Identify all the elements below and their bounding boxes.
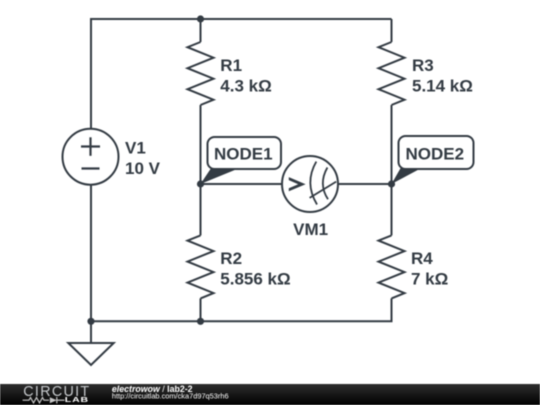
- wire top right branch: [391, 19, 393, 42]
- node junction dot ground: [87, 318, 94, 325]
- wire R3 bottom to NODE2: [391, 105, 393, 184]
- svg-text:R4: R4: [411, 249, 433, 268]
- label R4 value: [411, 249, 448, 289]
- logo schematic squiggle (resistor + diode): [23, 397, 65, 403]
- node junction dot NODE1: [197, 180, 204, 187]
- wire middle left (NODE1 to VM1): [201, 183, 283, 185]
- svg-text:10 V: 10 V: [125, 159, 161, 178]
- resistor R2: [188, 235, 214, 298]
- svg-text:V1: V1: [125, 138, 146, 157]
- svg-text:R2: R2: [220, 249, 242, 268]
- svg-text:R1: R1: [220, 56, 242, 75]
- wire top rail: [91, 19, 392, 129]
- node junction dot R2 bottom: [197, 318, 204, 325]
- ground: [68, 343, 113, 365]
- wire R4 bottom lead and bottom rail: [91, 298, 392, 321]
- voltage source V1: [63, 129, 119, 185]
- wire middle right (VM1 to NODE2): [338, 183, 392, 185]
- node junction dot top: [197, 15, 204, 22]
- svg-text:5.856 kΩ: 5.856 kΩ: [220, 270, 290, 289]
- svg-text:R3: R3: [412, 56, 434, 75]
- svg-text:http://circuitlab.com/cka7d97q: http://circuitlab.com/cka7d97q53rh6: [112, 391, 229, 400]
- svg-text:5.14 kΩ: 5.14 kΩ: [412, 77, 473, 96]
- wire NODE1 to R2: [200, 184, 202, 235]
- resistor R1: [188, 42, 214, 105]
- wire NODE2 to R4: [391, 184, 393, 235]
- label V1 value: [125, 138, 161, 178]
- node junction dot NODE2: [388, 180, 395, 187]
- svg-text:LAB: LAB: [65, 396, 89, 404]
- footer bar: [0, 384, 540, 405]
- voltmeter VM1: [282, 156, 338, 212]
- svg-text:VM1: VM1: [293, 220, 328, 239]
- svg-text:4.3 kΩ: 4.3 kΩ: [220, 77, 271, 96]
- resistor R3: [379, 42, 405, 105]
- wire R1 top lead: [200, 19, 202, 42]
- resistor R4: [379, 235, 405, 298]
- wire R1 bottom to NODE1: [200, 105, 202, 184]
- wire V1 bottom to ground: [90, 185, 92, 343]
- node NODE1 callout: [201, 137, 282, 184]
- label R3 value: [412, 56, 473, 96]
- label R2 value: [220, 249, 290, 289]
- node NODE2 callout: [392, 136, 474, 184]
- svg-text:NODE1: NODE1: [214, 145, 273, 164]
- svg-text:7 kΩ: 7 kΩ: [411, 270, 448, 289]
- svg-text:NODE2: NODE2: [406, 145, 465, 164]
- wire R2 bottom lead: [200, 298, 202, 321]
- label R1 value: [220, 56, 271, 96]
